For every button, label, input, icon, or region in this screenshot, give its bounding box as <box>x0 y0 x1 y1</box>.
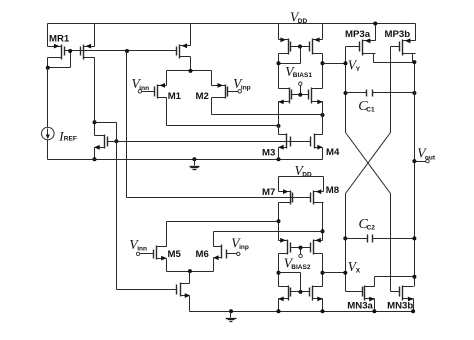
wire VY node <box>323 63 346 65</box>
node NMOS bias tap <box>114 139 118 143</box>
svg-text:M8: M8 <box>326 185 340 196</box>
node NMOS diode source at ground <box>93 157 97 161</box>
transistor tail NMOS of M5/M6 pair <box>180 283 182 297</box>
wire mirror PMOS drain down to NMOS diode <box>94 58 96 136</box>
ground symbol stage-1 <box>192 157 196 161</box>
ground symbol stage-2 <box>229 309 233 313</box>
wire M1 source up to yoke <box>166 71 168 86</box>
transistor M8 <box>313 191 315 205</box>
wire left column mirror-to-cascode <box>278 54 280 89</box>
svg-text:inp: inp <box>241 84 251 91</box>
node bottom mirror diode loop left <box>277 271 281 275</box>
wire VY vertical <box>345 47 347 133</box>
wire top mirror gates <box>291 46 310 48</box>
input terminal Vinp (stage 2) <box>227 253 237 255</box>
terminal VBIAS2 <box>300 248 302 255</box>
wire M8 source to VDD2 <box>323 177 325 192</box>
wire M5/M6 source yoke <box>167 271 214 273</box>
svg-text:MN3a: MN3a <box>347 300 373 311</box>
VDD rail (top) <box>48 23 416 25</box>
capacitor CC1 <box>346 92 367 94</box>
wire MN3b source to ground rail <box>413 299 415 312</box>
transistor MP3a <box>362 40 364 56</box>
node VX takeoff <box>321 271 325 275</box>
node CC1 right at Vout <box>412 91 416 95</box>
wire MR1 source to VDD <box>47 24 49 47</box>
wire right cascode2 to bottom mirror <box>322 254 324 287</box>
wire MP3b gate vertical <box>390 47 392 133</box>
transistor cascode VBIAS1 right <box>311 88 313 104</box>
node MN3a drain at Vout <box>412 275 416 279</box>
wire tail PMOS drain to yoke <box>190 57 192 71</box>
node CC2 left <box>343 236 347 240</box>
node bottom mirror right at rail <box>321 309 325 313</box>
svg-text:Y: Y <box>356 66 361 73</box>
node tail2 top <box>188 269 192 273</box>
node MN3a source at rail <box>372 309 376 313</box>
capacitor CC2 <box>346 238 368 240</box>
node VY takeoff <box>321 61 325 65</box>
wire MR1 gate-drain loop <box>70 51 72 68</box>
wire bottom mirror right source to ground rail <box>322 299 324 312</box>
wire M6 drain to right column <box>213 232 215 247</box>
transistor MN3b <box>402 286 404 301</box>
svg-text:inn: inn <box>139 85 149 92</box>
node bottom mirror left at rail <box>277 309 281 313</box>
node bias line drop to stage 2 <box>125 49 129 53</box>
wire MP3a drain to Vout <box>373 54 375 63</box>
svg-text:inn: inn <box>137 246 147 253</box>
wire VX node <box>323 272 346 274</box>
terminal Vout <box>412 159 416 163</box>
wire M8 drain down right column <box>322 203 324 241</box>
wire right cascode to M4 <box>322 102 324 135</box>
transistor cascode VBIAS1 left <box>289 88 291 104</box>
wire NMOS bias line down to stage-2 tail gate <box>116 142 118 290</box>
svg-text:inp: inp <box>239 244 249 251</box>
input terminal Vinp (stage 1) <box>228 91 239 93</box>
wire cross-couple diagonal VY to MN3b gate <box>346 133 391 194</box>
node MP3 drains at Vout <box>412 60 416 64</box>
transistor MN3a <box>364 286 366 301</box>
svg-text:MN3b: MN3b <box>387 300 413 311</box>
node MR1 gate tap <box>68 49 72 53</box>
wire top mirror diode loop <box>300 47 302 64</box>
wire M7 source to VDD2 <box>278 177 280 192</box>
wire M4 source to ground wire <box>322 148 324 160</box>
node MP3a VDD tap <box>373 22 377 26</box>
svg-text:BIAS1: BIAS1 <box>293 72 313 79</box>
transistor M6 <box>221 245 223 259</box>
node CC1 left <box>344 91 348 95</box>
current source IREF <box>47 68 49 128</box>
transistor tail PMOS of M1/M2 pair <box>179 45 181 59</box>
wire NMOS diode gate-drain loop <box>116 123 118 142</box>
svg-text:M5: M5 <box>168 249 182 260</box>
input terminal Vinn (stage 2) <box>136 252 139 255</box>
transistor MP3b <box>402 40 404 56</box>
node tail drain <box>189 69 193 73</box>
svg-text:M2: M2 <box>196 91 209 102</box>
wire left cascode to M3 <box>278 102 280 135</box>
wire MR1 drain down <box>47 58 49 68</box>
node VBIAS1 gates <box>298 93 302 97</box>
wire MP3a source to VDD <box>375 24 377 41</box>
node bottom mirror gates <box>299 290 303 294</box>
wire right mirror source to VDD <box>322 24 324 40</box>
wire left cascode2 to bottom mirror <box>278 254 280 287</box>
wire mirror PMOS source to VDD <box>94 24 96 47</box>
wire tail PMOS source to VDD <box>190 24 192 46</box>
svg-text:M3: M3 <box>262 148 275 159</box>
svg-text:C1: C1 <box>366 106 375 113</box>
transistor bottom mirror NMOS right <box>312 286 314 301</box>
wire tail2 source to ground rail <box>189 296 191 312</box>
wire M6 source to yoke <box>213 258 215 272</box>
transistor bottom mirror NMOS left <box>288 286 290 301</box>
transistor M7 <box>290 191 292 205</box>
svg-text:DD: DD <box>302 171 312 178</box>
wire PMOS bias line (MR1 gate rail) <box>65 50 177 52</box>
transistor MR1 (diode-connected PMOS) <box>61 45 63 60</box>
wire M7 drain down left column <box>278 203 280 241</box>
wire MP3a gate to VY line <box>346 46 360 48</box>
transistor M5 <box>156 246 158 260</box>
transistor M4 <box>314 134 316 149</box>
node VY at mirror wire <box>344 61 348 65</box>
wire MN3a drain to Vout <box>374 277 376 287</box>
wire MP3b source from VDD rail corner <box>415 24 417 41</box>
wire cross-couple diagonal VX to MP3b gate <box>346 133 391 194</box>
input terminal Vinn (stage 1) <box>138 90 141 93</box>
wire VBIAS2 gates <box>291 247 311 249</box>
node MR1 drain <box>46 66 50 70</box>
transistor M1 <box>157 85 159 99</box>
svg-text:X: X <box>356 267 361 274</box>
svg-text:MP3a: MP3a <box>345 29 371 40</box>
wire bottom mirror diode loop <box>300 273 302 292</box>
svg-text:out: out <box>425 154 436 161</box>
node VBIAS2 gates <box>299 246 303 250</box>
node M2 drain junction <box>321 113 325 117</box>
node M6 drain junction <box>321 229 325 233</box>
wire VDD rail stage 2 <box>279 176 324 178</box>
wire MN3b gate vertical <box>390 194 392 292</box>
wire M3 source to ground wire <box>278 148 280 160</box>
svg-text:C2: C2 <box>367 224 376 231</box>
wire VBIAS1 gates <box>292 94 309 96</box>
wire M2 drain to right cascode column <box>211 98 213 115</box>
node ground wire / M3 source <box>277 157 281 161</box>
svg-text:M6: M6 <box>196 249 209 260</box>
transistor top mirror PMOS left <box>288 39 290 55</box>
transistor M3 <box>286 134 288 149</box>
node CC2 right at Vout <box>412 236 416 240</box>
svg-text:M1: M1 <box>168 91 182 102</box>
wire ground rail stage-1 <box>48 159 323 161</box>
wire M5 source to yoke <box>166 259 168 272</box>
wire tail2 drain to yoke <box>189 272 191 284</box>
transistor mirror PMOS (unlabeled, next to MR1) <box>83 45 85 60</box>
svg-text:DD: DD <box>298 18 308 25</box>
svg-text:M4: M4 <box>326 147 340 158</box>
wire left mirror source to VDD <box>278 24 280 40</box>
svg-text:MP3b: MP3b <box>385 29 411 40</box>
wire MN3a source to ground rail <box>374 299 376 312</box>
transistor cascode VBIAS2 right <box>313 240 315 255</box>
node M1 drain junction <box>277 124 281 128</box>
wire M1/M2 source yoke <box>167 70 212 72</box>
wire MP3b gate stub <box>391 46 400 48</box>
wire VX to MN3a gate <box>346 291 363 293</box>
wire right column mirror-to-cascode <box>322 54 324 89</box>
wire MP3b drain down <box>412 54 414 63</box>
wire M2 source up to yoke <box>211 71 213 86</box>
transistor M2 <box>225 85 227 99</box>
terminal VBIAS1 <box>300 86 302 95</box>
wire stage-2 PMOS bias drop <box>126 51 128 198</box>
svg-text:BIAS2: BIAS2 <box>291 264 311 271</box>
node left mirror drain <box>277 61 281 65</box>
transistor top mirror PMOS right <box>312 39 314 55</box>
transistor cascode VBIAS2 left <box>287 240 289 255</box>
wire ground rail stage-2 <box>190 311 415 313</box>
wire M1 drain to left cascode column <box>166 98 168 126</box>
wire NMOS diode source to ground wire <box>94 148 96 160</box>
node MN3b source at rail <box>411 309 415 313</box>
svg-text:M7: M7 <box>262 187 275 198</box>
wire NMOS bias line to M3 M4 gates <box>108 141 311 143</box>
wire output Vout vertical <box>414 63 416 287</box>
wire bottom mirror gates <box>291 291 310 293</box>
transistor NMOS bias diode <box>104 135 106 149</box>
wire bottom mirror left source to ground rail <box>278 299 280 312</box>
svg-text:MR1: MR1 <box>49 33 70 44</box>
wire M5 drain to left column <box>166 222 168 247</box>
node VX at mirror wire <box>343 271 347 275</box>
wire VX vertical <box>345 194 347 292</box>
svg-text:REF: REF <box>64 136 77 143</box>
node mirror drain / diode loop tap <box>93 120 97 124</box>
node M5 drain junction <box>277 219 281 223</box>
node top mirror gates <box>298 45 302 49</box>
